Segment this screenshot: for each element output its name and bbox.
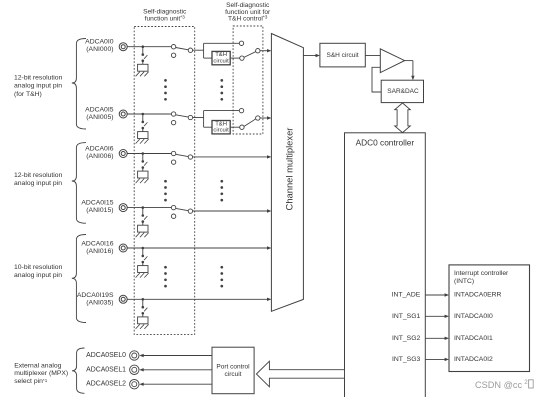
svg-text:(INTC): (INTC) [454, 278, 474, 285]
svg-text:INT_SG2: INT_SG2 [392, 335, 421, 342]
svg-text:Port control: Port control [216, 364, 250, 371]
svg-text:ADC0 controller: ADC0 controller [356, 137, 415, 147]
svg-text:ADCA0I15: ADCA0I15 [81, 199, 113, 206]
svg-text:multiplexer (MPX): multiplexer (MPX) [14, 370, 68, 377]
svg-text:INTADCA0ERR: INTADCA0ERR [454, 292, 502, 299]
svg-text:(ANI015): (ANI015) [86, 207, 113, 214]
svg-text:2: 2 [524, 379, 528, 386]
svg-text:T&H control*3: T&H control*3 [228, 14, 268, 23]
svg-text:12-bit resolution: 12-bit resolution [14, 74, 63, 81]
svg-text:INT_SG1: INT_SG1 [392, 313, 421, 320]
svg-text:INTADCA0I2: INTADCA0I2 [454, 356, 493, 363]
svg-text:10-bit resolution: 10-bit resolution [14, 264, 63, 271]
svg-text:circuit: circuit [225, 371, 242, 378]
svg-text:ADCA0I19S: ADCA0I19S [77, 292, 114, 299]
svg-text:ADCA0I5: ADCA0I5 [85, 107, 114, 114]
svg-text:INT_SG3: INT_SG3 [392, 356, 421, 363]
svg-text:INTADCA0I1: INTADCA0I1 [454, 335, 493, 342]
svg-text:CSDN @cc: CSDN @cc [475, 380, 523, 390]
svg-text:ADCA0SEL2: ADCA0SEL2 [86, 381, 126, 388]
svg-text:External analog: External analog [14, 362, 61, 369]
svg-text:(ANI006): (ANI006) [86, 153, 113, 160]
svg-text:Interrupt controller: Interrupt controller [454, 270, 509, 277]
svg-text:ADCA0SEL1: ADCA0SEL1 [86, 366, 126, 373]
svg-text:select pin*1: select pin*1 [14, 378, 48, 386]
svg-text:T&H: T&H [215, 52, 227, 58]
svg-text:ADCA0I6: ADCA0I6 [85, 145, 114, 152]
svg-text:S&H circuit: S&H circuit [327, 52, 359, 59]
svg-text:ADCA0I0: ADCA0I0 [85, 39, 114, 46]
svg-text:Channel multiplexer: Channel multiplexer [283, 128, 294, 211]
svg-text:(ANI000): (ANI000) [86, 46, 113, 53]
svg-text:function unit*3: function unit*3 [145, 14, 185, 23]
svg-text:(ANI016): (ANI016) [86, 248, 113, 255]
svg-text:INT_ADE: INT_ADE [392, 292, 421, 299]
svg-text:ADCA0I16: ADCA0I16 [81, 240, 113, 247]
svg-text:circuit: circuit [213, 58, 229, 64]
svg-text:analog input pin: analog input pin [14, 180, 62, 187]
svg-text:analog input pin: analog input pin [14, 272, 62, 279]
svg-text:SAR&DAC: SAR&DAC [387, 88, 419, 95]
svg-text:ADCA0SEL0: ADCA0SEL0 [86, 352, 126, 359]
svg-text:circuit: circuit [213, 128, 229, 134]
svg-text:(for T&H): (for T&H) [14, 91, 42, 98]
svg-text:analog input pin: analog input pin [14, 83, 62, 90]
svg-text:12-bit resolution: 12-bit resolution [14, 172, 63, 179]
svg-text:T&H: T&H [215, 121, 227, 127]
svg-text:(ANI005): (ANI005) [86, 114, 113, 121]
svg-text:(ANI035): (ANI035) [86, 300, 113, 307]
svg-text:INTADCA0I0: INTADCA0I0 [454, 313, 493, 320]
